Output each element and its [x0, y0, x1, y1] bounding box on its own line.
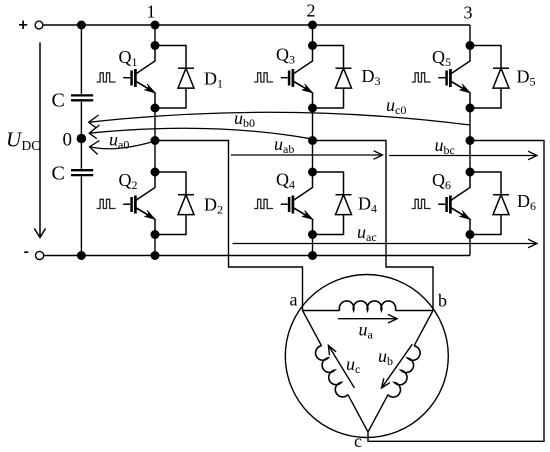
node top bus leg1 junction: [151, 21, 160, 30]
node leg2 emitter Q4: [308, 230, 317, 239]
wire phase b output: [313, 141, 434, 311]
terminal + circle: [35, 21, 43, 29]
svg-text:U: U: [6, 128, 23, 152]
transistor Q1: [97, 45, 156, 108]
node leg2 collector Q4: [308, 168, 317, 177]
wire delta side a-c: [303, 311, 369, 433]
svg-text:DC: DC: [22, 138, 41, 153]
wire leg 1: [154, 25, 156, 256]
node leg3 emitter Q6: [466, 230, 475, 239]
node 0 midpoint: [77, 134, 87, 144]
node leg2 phase tap b: [308, 136, 317, 145]
arrow u_b0 curved: [89, 125, 311, 139]
plus sign: [19, 21, 27, 29]
arrow u_ac: [233, 239, 538, 248]
svg-text:C: C: [52, 90, 65, 112]
wire leg 2: [312, 25, 314, 256]
svg-text:a: a: [290, 290, 298, 310]
wire phase c output: [368, 141, 544, 442]
inductor winding u_c: [313, 345, 348, 399]
node leg3 collector Q6: [466, 168, 475, 177]
node top bus leg2 junction: [308, 21, 317, 30]
wire delta side a-b: [303, 310, 434, 312]
minus sign: [24, 251, 28, 253]
inductor winding u_b: [388, 345, 423, 399]
node bottom bus leg2 junction: [308, 251, 317, 260]
transistor Q3: [254, 45, 313, 108]
svg-text:C: C: [52, 163, 65, 185]
node leg3 collector Q5: [466, 41, 475, 50]
arrow u_ab: [231, 151, 383, 160]
UDC arrow: [34, 42, 45, 237]
node leg1 collector Q1: [151, 41, 160, 50]
node top bus capacitor junction: [77, 21, 86, 30]
diode D2: [155, 172, 194, 235]
wire top DC bus: [43, 24, 470, 26]
transistor Q4: [254, 172, 313, 235]
node bottom bus capacitor junction: [77, 251, 86, 260]
svg-text:2: 2: [307, 1, 316, 21]
node bottom bus leg1 junction: [151, 251, 160, 260]
capacitor C upper plates: [71, 95, 93, 100]
diode D3: [313, 46, 352, 109]
arrow u_b: [382, 344, 413, 388]
node leg1 emitter Q2: [151, 230, 160, 239]
node leg1 emitter Q1: [151, 104, 160, 113]
node leg3 emitter Q5: [466, 104, 475, 113]
svg-text:c: c: [354, 431, 362, 451]
node leg2 collector Q3: [308, 41, 317, 50]
node leg1 phase tap a: [151, 136, 160, 145]
diode D6: [470, 172, 509, 235]
arrow u_a: [338, 314, 397, 323]
node leg2 emitter Q3: [308, 104, 317, 113]
diode D4: [313, 172, 352, 235]
capacitor C lower plates: [71, 170, 93, 175]
wire delta side b-c: [368, 311, 433, 433]
arrow u_c: [328, 345, 354, 388]
transistor Q5: [412, 45, 471, 108]
arrow u_a0 curved: [90, 141, 153, 155]
svg-text:0: 0: [63, 130, 73, 151]
node leg1 collector Q2: [151, 168, 160, 177]
svg-text:b: b: [438, 291, 447, 311]
transistor Q6: [412, 172, 471, 235]
svg-text:1: 1: [147, 2, 156, 22]
diode D5: [470, 46, 509, 109]
svg-text:3: 3: [464, 3, 473, 23]
diode D1: [155, 46, 194, 109]
wire leg 3: [469, 25, 471, 256]
motor circle: [285, 275, 448, 438]
arrow u_c0 curved: [89, 112, 470, 127]
wire capacitor branch: [80, 25, 82, 256]
wire bottom DC bus: [44, 255, 470, 257]
inductor winding u_a: [339, 301, 395, 311]
wire phase a output: [155, 141, 303, 311]
terminal - circle: [36, 251, 44, 259]
node leg3 phase tap c: [466, 136, 475, 145]
arrow u_bc: [389, 151, 537, 160]
transistor Q2: [97, 172, 156, 235]
